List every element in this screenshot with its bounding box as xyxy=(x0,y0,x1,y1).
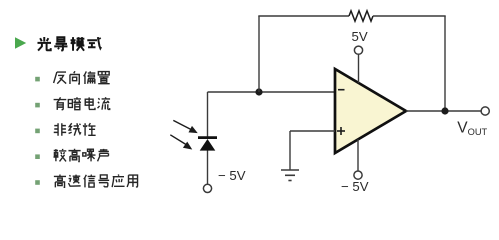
wire: non-inverting input horizontal xyxy=(290,130,335,132)
svg-text:− 5V: − 5V xyxy=(341,179,369,194)
svg-text:− 5V: − 5V xyxy=(218,168,246,183)
svg-text:5V: 5V xyxy=(352,29,368,44)
node: output junction xyxy=(441,107,448,114)
op-amp non-inverting input symbol xyxy=(337,127,345,135)
wire: feedback top horizontal right xyxy=(373,15,446,17)
label -5V (op-amp supply) xyxy=(341,179,369,194)
photodiode D1 xyxy=(198,138,217,151)
wire: feedback left vertical xyxy=(258,16,260,92)
bullet 4 xyxy=(35,154,40,159)
bullet 3 xyxy=(35,129,40,134)
light arrow 1 xyxy=(173,120,196,132)
list item 5: 高速信号应用 xyxy=(54,174,138,187)
resistor R1 (feedback) xyxy=(349,11,373,21)
terminal circle: -5V supply xyxy=(354,171,362,179)
terminal circle: +5V supply xyxy=(354,46,362,54)
bullet 2 xyxy=(35,103,40,108)
node: summing junction xyxy=(255,88,262,95)
wire: output horizontal xyxy=(406,110,481,112)
bullet 5 xyxy=(35,180,40,185)
light arrow 2 xyxy=(170,135,191,149)
op-amp inverting input symbol xyxy=(338,89,345,91)
terminal circle: VOUT xyxy=(481,107,489,115)
wire: feedback right vertical xyxy=(444,16,446,111)
ground xyxy=(281,170,299,181)
wire: photodiode bottom vertical xyxy=(207,150,209,184)
op-amp U1 xyxy=(335,69,406,153)
bullet 1 xyxy=(35,77,40,82)
list item 3: 非线性 xyxy=(54,123,96,136)
wire: photodiode top vertical xyxy=(207,92,209,137)
wire: positive supply pin xyxy=(358,54,360,83)
wire: negative supply pin xyxy=(357,139,359,171)
wire: inverting input horizontal (photodiode to op-amp) xyxy=(208,91,336,93)
svg-text:OUT: OUT xyxy=(468,127,488,137)
list item 1: 反向偏置 xyxy=(54,71,110,84)
title text 光导模式 xyxy=(37,37,101,51)
list item 4: 较高噪声 xyxy=(53,149,108,162)
wire: ground vertical xyxy=(289,131,291,170)
label VOUT xyxy=(457,120,487,137)
terminal circle: photodiode -5V supply xyxy=(203,184,211,192)
label - 5V (photodiode supply) xyxy=(218,168,246,183)
wire: feedback top horizontal left xyxy=(258,15,349,17)
title marker arrow xyxy=(15,37,26,48)
list item 2: 有暗电流 xyxy=(54,97,110,110)
label 5V xyxy=(352,29,368,44)
